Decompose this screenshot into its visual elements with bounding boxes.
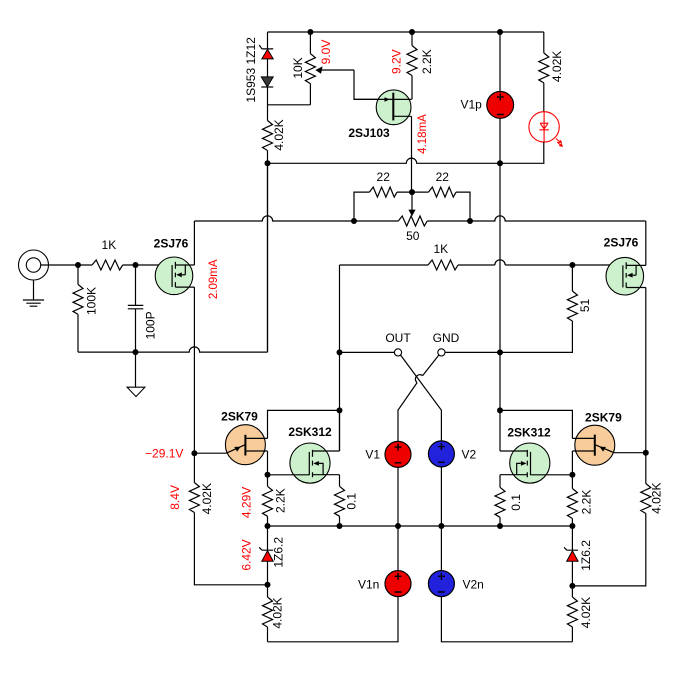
junction dot bus 0.1R bbox=[497, 523, 503, 529]
wire 2SK79R source down bbox=[571, 451, 573, 475]
resistor 4.02K top-left bbox=[263, 121, 273, 151]
wire 2SJ76 left source down bbox=[193, 287, 195, 453]
wire between diodes bbox=[267, 59, 269, 77]
voltage source V1n bbox=[385, 571, 411, 597]
svg-text:6.42V: 6.42V bbox=[240, 539, 254, 570]
wire 100K leads bbox=[77, 265, 79, 352]
wire 2.2KL leads bbox=[267, 475, 269, 526]
svg-text:0.1: 0.1 bbox=[509, 494, 523, 511]
svg-text:V1p: V1p bbox=[461, 98, 483, 112]
junction dot bus 2.2KR bbox=[569, 523, 575, 529]
wire 1K to gate node bbox=[78, 264, 136, 266]
resistor 1K input bbox=[92, 260, 123, 270]
svg-text:−29.1V: −29.1V bbox=[145, 447, 183, 461]
junction dot node out-left column bbox=[337, 349, 343, 355]
wire zener left bottom bbox=[267, 561, 269, 585]
junction dot node top rail / 2.2K bbox=[409, 29, 415, 35]
resistor 22 left bbox=[369, 187, 397, 197]
zener diode 1Z12 bbox=[259, 45, 273, 59]
svg-text:4.02K: 4.02K bbox=[649, 483, 663, 514]
resistor 100K bbox=[73, 284, 83, 314]
wire 4.02K to LED bbox=[543, 83, 545, 112]
wire zener right bottom bbox=[571, 561, 573, 586]
wire left 22 lead up bbox=[354, 192, 369, 221]
wire bottom bus y526 bbox=[268, 525, 573, 527]
wire gate node to 2SJ76 left bbox=[136, 264, 173, 266]
node A junction 10K bottom wire bbox=[268, 104, 311, 106]
ground symbol signal ground bbox=[127, 352, 145, 397]
svg-text:OUT: OUT bbox=[385, 331, 411, 345]
wire gnd bus right bbox=[445, 351, 500, 353]
wire 2SK79L source down bbox=[267, 451, 269, 475]
zener diode 1Z6.2 right bbox=[564, 547, 578, 561]
svg-text:22: 22 bbox=[436, 170, 450, 184]
svg-text:100K: 100K bbox=[85, 287, 99, 315]
resistor 2.2K top bbox=[407, 46, 417, 76]
svg-text:V2: V2 bbox=[462, 448, 477, 462]
wire 2SJ76 right drain up to rail221 bbox=[645, 221, 647, 265]
wire 10K bottom lead bbox=[309, 84, 311, 105]
wire ground bus left with hop at x194.4 bbox=[78, 163, 268, 352]
svg-text:2SK79: 2SK79 bbox=[585, 410, 622, 424]
wire crossover OUT to V2 bbox=[401, 355, 442, 441]
terminal GND bbox=[438, 349, 445, 356]
svg-text:4.02K: 4.02K bbox=[271, 597, 285, 628]
resistor 22 right bbox=[429, 187, 457, 197]
svg-text:1Z6.2: 1Z6.2 bbox=[579, 540, 593, 571]
wire top rail corner to 4.02K bbox=[543, 32, 545, 53]
junction dot node zener left bottom bbox=[265, 582, 271, 588]
wire 4.02K to rail y163 bbox=[267, 151, 269, 164]
svg-text:2.2K: 2.2K bbox=[420, 49, 434, 74]
zener diode 1Z6.2 left bbox=[259, 547, 273, 561]
wire 2.2KR leads bbox=[571, 475, 573, 526]
junction dot 51 top bbox=[569, 262, 575, 268]
svg-text:8.4V: 8.4V bbox=[168, 485, 182, 510]
svg-text:4.02K: 4.02K bbox=[272, 119, 286, 150]
svg-text:2.09mA: 2.09mA bbox=[208, 259, 220, 299]
svg-text:4.18mA: 4.18mA bbox=[417, 114, 429, 154]
potentiometer 10K body bbox=[305, 54, 315, 84]
svg-text:0.1: 0.1 bbox=[345, 493, 359, 510]
svg-text:GND: GND bbox=[433, 331, 460, 345]
wire zener left top bbox=[267, 526, 269, 550]
junction dot node rail163 V1p bbox=[497, 160, 503, 166]
resistor 51 bbox=[567, 291, 577, 321]
resistor 1K middle bbox=[428, 260, 458, 270]
svg-text:4.02K: 4.02K bbox=[200, 483, 214, 514]
junction dot rail221 left 22 bbox=[351, 218, 357, 224]
wire 4.02K right column leads bbox=[572, 453, 645, 586]
svg-text:4.29V: 4.29V bbox=[240, 487, 254, 518]
wire between 22s bbox=[397, 191, 429, 193]
svg-text:2SJ76: 2SJ76 bbox=[154, 237, 189, 251]
wire 0.1L leads bbox=[339, 475, 341, 526]
wire 2SJ76 right source down bbox=[645, 288, 647, 453]
wire 2SK79L drain to node bbox=[268, 410, 340, 438]
wire 2SK312L drain up bbox=[339, 410, 341, 451]
svg-text:51: 51 bbox=[578, 299, 592, 313]
wire crossover GND to V1 with hop bbox=[398, 355, 439, 441]
wire drain bus right bbox=[500, 410, 572, 438]
resistor 4.02K bottom-right bbox=[567, 597, 577, 627]
voltage source V1 bbox=[385, 441, 411, 467]
wire 4.02K left column leads bbox=[194, 453, 267, 585]
svg-text:1K: 1K bbox=[433, 242, 448, 256]
wire rail y163 with hop over 2SJ103 source bbox=[268, 158, 501, 163]
input connector J1 bbox=[19, 250, 49, 280]
wire 51 leads bbox=[500, 265, 572, 352]
junction dot node rail163 left bbox=[265, 160, 271, 166]
svg-text:9.2V: 9.2V bbox=[389, 49, 403, 74]
svg-text:V1n: V1n bbox=[358, 578, 379, 592]
wire V2 bottom bbox=[440, 467, 442, 526]
svg-text:2SJ76: 2SJ76 bbox=[604, 236, 639, 250]
wire rail to V1p bbox=[499, 32, 501, 92]
voltage source V2 bbox=[428, 441, 454, 467]
wire top positive rail y=32 bbox=[268, 31, 544, 33]
transistor 2SK312 right bbox=[500, 443, 572, 483]
wire 2SJ76 left drain up to rail221 bbox=[193, 221, 195, 265]
wire pot wiper to 2SJ103 gate bbox=[354, 70, 392, 99]
junction dot bus V2 bbox=[438, 523, 444, 529]
wire V2n bottom to 4.02K bbox=[441, 597, 572, 642]
svg-text:50: 50 bbox=[406, 229, 420, 243]
wire V1 bottom bbox=[397, 467, 399, 526]
hop mid row at x500 bbox=[495, 260, 505, 265]
junction dot node between 22 resistors bbox=[409, 189, 415, 195]
wire 4.02K bottom-left leads bbox=[267, 585, 269, 642]
wire column x267.5 down to corner bbox=[267, 163, 269, 352]
transistor 2SK312 left bbox=[268, 443, 340, 483]
svg-text:9.0V: 9.0V bbox=[319, 40, 333, 65]
svg-text:V2n: V2n bbox=[463, 578, 484, 592]
capacitor 100P bbox=[128, 265, 144, 352]
wire V1n top bbox=[397, 526, 399, 571]
transistor 2SJ76 right bbox=[606, 257, 646, 295]
svg-text:2.2K: 2.2K bbox=[579, 490, 593, 515]
voltage source V2n bbox=[428, 571, 454, 597]
transistor 2SJ76 left bbox=[155, 257, 194, 295]
svg-text:2.2K: 2.2K bbox=[273, 488, 287, 513]
svg-text:2SK312: 2SK312 bbox=[507, 425, 551, 439]
wire x500 column bbox=[499, 163, 501, 451]
voltage source V1p bbox=[487, 92, 514, 119]
transistor 2SK79 right bbox=[572, 425, 645, 465]
wire mid 1K row bbox=[340, 264, 573, 266]
junction dot node drain left bbox=[337, 407, 343, 413]
wire out bus left bbox=[340, 351, 395, 353]
potentiometer 50 body bbox=[398, 216, 427, 226]
junction dot node input / 100K bbox=[75, 262, 81, 268]
wire top rail to zener 1Z12 bbox=[267, 32, 269, 49]
resistor 4.02K left column bbox=[189, 483, 199, 513]
wire 4.02K bottom-right leads bbox=[571, 586, 573, 642]
wire rail to 2.2K bbox=[411, 32, 413, 46]
wire rail y221 left part with hop at x267.5 bbox=[194, 216, 398, 221]
resistor 4.02K top-right bbox=[539, 53, 549, 83]
terminal OUT bbox=[394, 349, 401, 356]
resistor 2.2K left bbox=[263, 486, 273, 516]
wire 22 junction to pot wiper arrow bbox=[408, 192, 415, 216]
wire V1n bottom to 4.02K bbox=[268, 597, 399, 642]
svg-text:4.02K: 4.02K bbox=[550, 51, 564, 82]
wire connector to 100K node bbox=[41, 264, 78, 266]
junction dot node cap bottom bbox=[133, 349, 139, 355]
wire V1p to rail163 bbox=[499, 118, 501, 163]
wire diode chain to node A bbox=[267, 87, 269, 121]
transistor 2SJ103 bbox=[354, 90, 412, 125]
junction dot bus V1 bbox=[395, 523, 401, 529]
junction dot rail221 right 22 bbox=[467, 218, 473, 224]
wire 0.1R leads bbox=[499, 475, 501, 526]
wire gate to 2SJ76 right bbox=[572, 264, 623, 266]
resistor 4.02K bottom-left bbox=[263, 597, 273, 627]
resistor 2.2K right bbox=[567, 489, 577, 519]
svg-text:2SK79: 2SK79 bbox=[221, 410, 258, 424]
junction dot bus 0.1L bbox=[337, 523, 343, 529]
junction dot node 2SK312R gate bbox=[569, 472, 575, 478]
svg-text:2SK312: 2SK312 bbox=[288, 425, 332, 439]
transistor 2SK79 left bbox=[194, 425, 267, 465]
junction dot node gate / 100P bbox=[133, 262, 139, 268]
wire V2n top bbox=[440, 526, 442, 571]
hop crossover bbox=[415, 375, 422, 383]
junction dot node -29.1V bbox=[191, 450, 197, 456]
wire LED to rail163 bbox=[500, 142, 544, 163]
junction dot node x500 y410 bbox=[497, 407, 503, 413]
pot 10K wiper arrow bbox=[315, 66, 354, 73]
junction dot node zener right bottom bbox=[569, 583, 575, 589]
svg-text:1Z6.2: 1Z6.2 bbox=[272, 537, 286, 568]
wire rail y221 right part with hop at x500 bbox=[427, 216, 646, 221]
junction dot node top rail / V1p bbox=[497, 29, 503, 35]
wire 2SJ103 source down continuous bbox=[411, 116, 413, 192]
resistor 0.1 left bbox=[335, 486, 345, 516]
svg-text:10K: 10K bbox=[291, 57, 305, 78]
junction dot node 2SK79R gate bbox=[643, 450, 649, 456]
svg-text:1K: 1K bbox=[102, 238, 117, 252]
wire x339.5 column top bbox=[339, 265, 341, 451]
LED D1 bbox=[529, 112, 563, 147]
junction dot node gnd-right column bbox=[497, 349, 503, 355]
svg-text:1S953 1Z12: 1S953 1Z12 bbox=[244, 37, 258, 103]
resistor 0.1 right bbox=[495, 487, 505, 517]
junction dot node top rail / 10K bbox=[307, 29, 313, 35]
wire right 22 lead down bbox=[456, 192, 470, 221]
wire 2.2K to 2SJ103 drain bbox=[411, 76, 413, 100]
wire rail to 10K pot bbox=[309, 32, 311, 54]
svg-text:100P: 100P bbox=[144, 311, 158, 339]
svg-text:22: 22 bbox=[377, 170, 391, 184]
junction dot node 2SK312L gate bbox=[265, 472, 271, 478]
resistor 4.02K right column bbox=[641, 484, 651, 514]
junction dot node bus x267.5 bbox=[265, 523, 271, 529]
svg-text:V1: V1 bbox=[365, 448, 380, 462]
wire zener right top bbox=[571, 526, 573, 550]
svg-text:2SJ103: 2SJ103 bbox=[348, 126, 390, 140]
diode 1S953 bbox=[261, 77, 273, 87]
ground symbol input connector bbox=[23, 280, 44, 306]
svg-text:4.02K: 4.02K bbox=[579, 597, 593, 628]
